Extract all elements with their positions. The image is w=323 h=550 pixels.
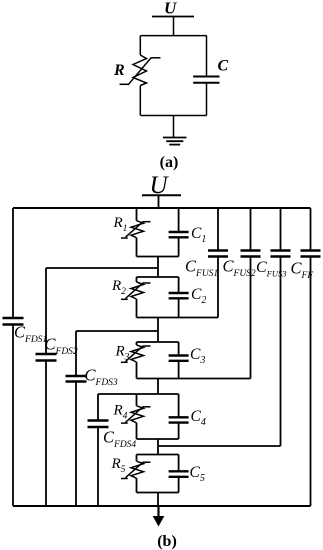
wire: stage3 bottom bar + C_FUS2 horizontal bbox=[137, 378, 251, 380]
wire: R3 branch upper bbox=[136, 342, 138, 345]
wire: box bottom to ground (part a) bbox=[173, 116, 175, 138]
wire: C3 branch upper bbox=[178, 342, 180, 356]
wire: C_FDS3 vertical bbox=[75, 331, 77, 376]
wire: stage4 bottom bar bbox=[137, 438, 179, 440]
wire: node 2-3 stub bbox=[157, 318, 159, 343]
wire: stage5 bottom bar bbox=[137, 492, 179, 494]
svg-text:C3: C3 bbox=[190, 346, 205, 366]
wire: C_FUS2 vertical bbox=[250, 208, 252, 251]
wire: stage2 top bar bbox=[137, 276, 179, 278]
wire: right branch upper (part a) bbox=[206, 36, 208, 76]
wire: right branch lower (part a) bbox=[206, 84, 208, 116]
capacitor C_FDS4 bbox=[88, 419, 109, 421]
svg-text:C4: C4 bbox=[191, 408, 206, 428]
wire: C_FDS2 vertical bbox=[45, 268, 47, 354]
wire: R4 branch lower bbox=[136, 423, 138, 439]
wire: C_FF vertical bbox=[310, 208, 312, 251]
wire: C5 branch lower bbox=[178, 477, 180, 493]
wire: box top (part a) bbox=[141, 35, 207, 37]
wire: C_FDS3 horizontal to node 2-3 bbox=[76, 330, 158, 332]
wire: R4 branch upper bbox=[136, 394, 138, 406]
wire: C2 branch lower bbox=[178, 298, 180, 317]
svg-text:CFUS1: CFUS1 bbox=[185, 257, 218, 280]
capacitor C_FUS3 bbox=[271, 249, 291, 251]
wire: C_FUS3 vertical bbox=[280, 208, 282, 251]
svg-text:R: R bbox=[113, 62, 125, 79]
capacitor C4 bbox=[169, 416, 189, 418]
capacitor C_FUS1 bbox=[208, 249, 228, 251]
svg-text:C1: C1 bbox=[191, 225, 206, 245]
capacitor C_FF bbox=[301, 249, 321, 251]
wire: node 1-2 stub bbox=[157, 257, 159, 278]
wire: node 3-4 stub bbox=[157, 379, 159, 395]
wire: R3 branch lower bbox=[136, 362, 138, 379]
svg-text:R2: R2 bbox=[111, 278, 126, 297]
resistor R (part a varistor) bbox=[120, 55, 161, 86]
capacitor C2 bbox=[169, 292, 189, 294]
wire: left branch lower (part a) bbox=[139, 86, 141, 116]
svg-text:CFDS3: CFDS3 bbox=[85, 366, 118, 389]
terminal bar U (part a) bbox=[152, 16, 194, 18]
resistor R3 (varistor) bbox=[121, 345, 151, 362]
capacitor C_FDS3 bbox=[66, 375, 87, 377]
terminal bar U (part b) bbox=[142, 194, 181, 196]
ground (part a) bbox=[163, 138, 187, 145]
wire: C_FUS1 vertical bbox=[217, 208, 219, 251]
capacitor C_FDS2 bbox=[36, 353, 57, 355]
wire: box bottom (part a) bbox=[141, 115, 207, 117]
capacitor C (part a) bbox=[193, 76, 219, 78]
resistor R1 (varistor) bbox=[121, 221, 151, 238]
svg-text:CFDS4: CFDS4 bbox=[103, 428, 136, 451]
wire: U bar to box top (part a) bbox=[173, 17, 175, 36]
wire: R5 branch upper bbox=[136, 455, 138, 462]
wire: node 4-5 stub bbox=[157, 439, 159, 455]
svg-text:CFDS1: CFDS1 bbox=[14, 323, 47, 346]
svg-text:CFUS3: CFUS3 bbox=[256, 259, 287, 279]
wire: top rail bbox=[13, 207, 311, 209]
wire: R5 branch lower bbox=[136, 478, 138, 492]
wire: left branch upper (part a) bbox=[139, 36, 141, 55]
svg-text:(b): (b) bbox=[157, 533, 177, 550]
wire: stage5 top bar bbox=[137, 454, 179, 456]
capacitor C3 bbox=[169, 354, 189, 356]
svg-text:C2: C2 bbox=[191, 286, 206, 306]
svg-text:R3: R3 bbox=[115, 344, 130, 363]
svg-text:C5: C5 bbox=[190, 464, 205, 484]
svg-text:R4: R4 bbox=[113, 403, 128, 422]
wire: R2 branch lower bbox=[136, 299, 138, 318]
capacitor C1 bbox=[169, 231, 189, 233]
wire: C5 branch upper bbox=[178, 455, 180, 472]
resistor R5 (varistor) bbox=[121, 461, 151, 478]
wire: U bar to top rail bbox=[158, 195, 160, 208]
wire: stage4 top bar + C_FDS4 horizontal bbox=[98, 393, 179, 395]
svg-text:(a): (a) bbox=[160, 154, 179, 171]
capacitor C_FUS2 bbox=[241, 249, 261, 251]
resistor R2 (varistor) bbox=[121, 282, 151, 299]
svg-text:R5: R5 bbox=[111, 456, 126, 475]
wire: stage3 top bar bbox=[137, 341, 179, 343]
wire: C_FDS4 vertical bbox=[97, 394, 99, 421]
wire: C3 branch lower bbox=[178, 361, 180, 379]
resistor R4 (varistor) bbox=[121, 406, 151, 423]
wire: stage5 to bottom bus stub bbox=[157, 493, 159, 507]
svg-text:U: U bbox=[164, 0, 177, 18]
wire: C2 branch upper bbox=[178, 277, 180, 293]
svg-text:R1: R1 bbox=[113, 215, 128, 234]
capacitor C5 bbox=[169, 470, 189, 472]
wire: C_FDS2 horizontal to node 1-2 bbox=[46, 267, 158, 269]
wire: C1 branch lower bbox=[178, 237, 180, 256]
wire: bottom bus bbox=[13, 505, 311, 507]
wire: C1 branch upper bbox=[178, 208, 180, 232]
wire: stage1 bottom bar bbox=[137, 256, 179, 258]
capacitor C_FDS1 bbox=[3, 317, 24, 319]
wire: stage2 bottom bar + C_FUS1 horizontal bbox=[137, 317, 219, 319]
output arrow (down) bbox=[153, 506, 165, 527]
wire: C4 branch lower bbox=[178, 423, 180, 439]
wire: C4 branch upper bbox=[178, 394, 180, 417]
wire: C_FUS3 horizontal to node 4-5 bbox=[158, 445, 281, 447]
wire: R2 branch upper bbox=[136, 277, 138, 282]
wire: R1 branch upper bbox=[136, 208, 138, 221]
wire: R1 branch lower bbox=[136, 238, 138, 257]
wire: left outer vertical (C_FDS1 branch) bbox=[12, 208, 14, 318]
svg-text:C: C bbox=[218, 58, 229, 75]
